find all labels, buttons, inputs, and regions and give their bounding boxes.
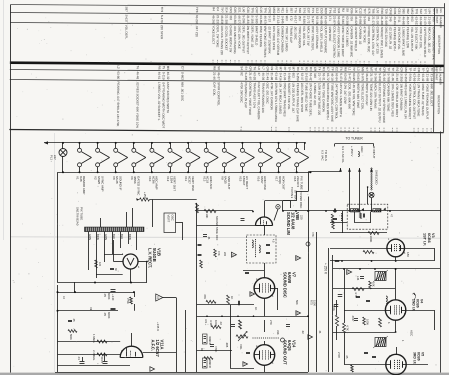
svg-text:63-42: 63-42 — [421, 74, 425, 82]
svg-text:1/2W DISC: 1/2W DISC — [328, 26, 332, 42]
svg-text:= =: = = — [358, 61, 362, 66]
svg-text:= =: = = — [285, 60, 289, 65]
svg-text:= =: = = — [367, 61, 371, 66]
svg-text:M7: M7 — [279, 67, 283, 72]
svg-text:10% YOKE SPKR: 10% YOKE SPKR — [272, 26, 276, 51]
svg-text:S-862: S-862 — [180, 72, 184, 80]
svg-text:63-28: 63-28 — [253, 72, 257, 80]
svg-text:21-48: 21-48 — [395, 73, 399, 81]
svg-text:S21: S21 — [237, 7, 241, 13]
svg-text:S-471: S-471 — [348, 73, 352, 81]
svg-text:4.7K: 4.7K — [346, 325, 350, 331]
svg-text:= =: = = — [233, 60, 237, 65]
svg-text:10% VOL TRANS 220: 10% VOL TRANS 220 — [220, 25, 224, 55]
svg-text:+ 250 V: + 250 V — [350, 146, 354, 156]
svg-text:470K SHIELD 68K BRKT: 470K SHIELD 68K BRKT — [395, 83, 399, 117]
svg-text:OF V8A: OF V8A — [294, 190, 298, 200]
svg-text:IF INPUT: IF INPUT — [372, 146, 376, 159]
svg-text:C85: C85 — [233, 7, 237, 13]
svg-text:YOKE CARBON: YOKE CARBON — [298, 26, 302, 48]
svg-text:= =: = = — [382, 128, 386, 133]
svg-text:DESCRIPTION: DESCRIPTION — [437, 35, 441, 54]
svg-text:120: 120 — [98, 262, 101, 267]
svg-text:VOL DEFL SHIELD: VOL DEFL SHIELD — [319, 26, 323, 53]
svg-text:CHOKE COIL OSC: CHOKE COIL OSC — [367, 27, 371, 54]
svg-text:21-65: 21-65 — [391, 73, 395, 81]
svg-text:TRANS ASSY 10%: TRANS ASSY 10% — [252, 82, 256, 108]
svg-text:M9: M9 — [404, 67, 408, 72]
svg-text:M9: M9 — [166, 66, 170, 71]
svg-text:63-42: 63-42 — [309, 73, 313, 81]
svg-text:= =: = = — [224, 60, 228, 65]
svg-text:= =: = = — [412, 128, 416, 133]
svg-text:PIX TUBE: PIX TUBE — [299, 176, 303, 190]
svg-text:= =: = = — [384, 61, 388, 66]
svg-text:63-48: 63-48 — [274, 73, 278, 81]
svg-text:L2: L2 — [116, 65, 120, 69]
svg-text:6.3 V AC FIL: 6.3 V AC FIL — [341, 146, 345, 163]
svg-text:63-65: 63-65 — [343, 73, 347, 81]
svg-text:= =: = = — [311, 60, 315, 65]
svg-text:S-843: S-843 — [378, 73, 382, 81]
svg-text:MICA .047 1W: MICA .047 1W — [306, 26, 310, 46]
svg-text:TP7: TP7 — [432, 9, 436, 15]
svg-text:7.5K: 7.5K — [126, 298, 130, 304]
svg-text:LIN TRANS MICA TONE: LIN TRANS MICA TONE — [416, 84, 420, 117]
svg-text:LIN 220 OUTPUT .047: LIN 220 OUTPUT .047 — [291, 83, 295, 114]
svg-text:NUMBER: NUMBER — [439, 17, 443, 28]
svg-text:C87: C87 — [307, 8, 311, 14]
svg-text:SND OUT: SND OUT — [227, 176, 231, 190]
svg-text:TP8: TP8 — [195, 7, 199, 13]
svg-text:S10: S10 — [298, 8, 302, 14]
svg-text:= =: = = — [347, 127, 351, 132]
svg-text:S57: S57 — [289, 8, 293, 14]
svg-text:SYNC AMP: SYNC AMP — [100, 176, 104, 192]
svg-text:TP: TP — [374, 67, 378, 71]
svg-text:L44: L44 — [356, 276, 360, 281]
svg-text:10K: 10K — [205, 214, 209, 219]
svg-text:= =: = = — [356, 127, 360, 132]
svg-text:L34: L34 — [285, 8, 289, 13]
svg-text:= =: = = — [215, 60, 219, 65]
svg-text:21-97: 21-97 — [248, 72, 252, 80]
svg-text:.0047: .0047 — [100, 356, 104, 363]
svg-text:= =: = = — [423, 61, 427, 66]
svg-text:1.5MEG .047 CERAM: 1.5MEG .047 CERAM — [276, 26, 280, 56]
svg-text:= =: = = — [280, 60, 284, 65]
svg-text:PEAKING .047 SHIELD LIN 470K: PEAKING .047 SHIELD LIN 470K — [116, 81, 120, 126]
svg-text:R2: R2 — [341, 8, 345, 12]
svg-text:820K: 820K — [107, 293, 111, 300]
svg-text:DEFL 1W YOKE: DEFL 1W YOKE — [216, 25, 220, 47]
svg-text:L1: L1 — [348, 67, 352, 71]
svg-text:VOL DEFL: VOL DEFL — [124, 25, 128, 40]
svg-text:S-156: S-156 — [250, 15, 254, 23]
svg-text:= =: = = — [313, 127, 317, 132]
svg-text:= =: = = — [330, 127, 334, 132]
svg-text:= =: = = — [332, 61, 336, 66]
svg-text:= =: = = — [228, 60, 232, 65]
svg-text:.02 BRKT 1/2W BRK: .02 BRKT 1/2W BRK — [267, 26, 271, 54]
svg-text:CAP ELECT VOL CARBON: CAP ELECT VOL CARBON — [257, 82, 261, 119]
svg-text:V4: V4 — [419, 299, 423, 303]
svg-text:1/2 6CN7: 1/2 6CN7 — [155, 340, 160, 358]
svg-text:21-603: 21-603 — [324, 16, 328, 26]
svg-text:270: 270 — [269, 320, 273, 325]
svg-text:470K: 470K — [214, 346, 218, 352]
svg-text:S-13: S-13 — [268, 15, 272, 22]
svg-text:VOL OSC VOL: VOL OSC VOL — [302, 26, 306, 46]
svg-text:68K .001 ELECT: 68K .001 ELECT — [430, 84, 434, 107]
svg-text:MICA 10% TRANS: MICA 10% TRANS — [373, 83, 377, 108]
svg-text:220 DEFL RES SPKR: 220 DEFL RES SPKR — [300, 83, 304, 113]
svg-text:L8: L8 — [257, 66, 261, 70]
svg-text:S-859: S-859 — [358, 16, 362, 24]
svg-text:TP: TP — [421, 68, 425, 72]
svg-text:REF: REF — [435, 67, 439, 73]
svg-text:472: 472 — [289, 16, 293, 21]
svg-text:TP: TP — [352, 67, 356, 71]
svg-text:CARBON .02 WW MIC: CARBON .02 WW MIC — [349, 26, 353, 58]
svg-text:PEAKING TRANS CAP SHIE: PEAKING TRANS CAP SHIE — [296, 83, 300, 122]
svg-text:R2: R2 — [395, 67, 399, 71]
svg-text:PEAKING WIDTH: PEAKING WIDTH — [393, 27, 397, 51]
svg-text:S63: S63 — [276, 8, 280, 14]
svg-text:R11: R11 — [281, 8, 285, 14]
svg-text:R9: R9 — [212, 66, 216, 70]
svg-text:C15: C15 — [259, 7, 263, 13]
svg-text:VOL: VOL — [239, 344, 243, 350]
svg-text:3.3K: 3.3K — [209, 320, 213, 326]
svg-text:= =: = = — [375, 61, 379, 66]
svg-text:316: 316 — [350, 16, 354, 21]
svg-text:DISC TUBE .02 TRANS: DISC TUBE .02 TRANS — [421, 84, 425, 116]
svg-text:TP: TP — [391, 67, 395, 71]
svg-text:S-119: S-119 — [162, 72, 166, 80]
svg-text:OUTPUT CERAMIC: OUTPUT CERAMIC — [324, 26, 328, 54]
svg-text:S-510: S-510 — [304, 73, 308, 81]
svg-text:.047 PEAKING WIDTH OSC WIDT: .047 PEAKING WIDTH OSC WIDT — [161, 82, 165, 129]
svg-text:TRANS PEAKING 220: TRANS PEAKING 220 — [261, 82, 265, 113]
svg-text:+ 250 V: + 250 V — [324, 263, 328, 275]
svg-text:ASSY CERAMIC: ASSY CERAMIC — [315, 26, 319, 49]
svg-text:1W BRKT CARBON: 1W BRKT CARBON — [399, 83, 403, 110]
svg-text:TP: TP — [387, 67, 391, 71]
svg-text:S75: S75 — [367, 8, 371, 14]
svg-text:ASSY CARBON 1.5ME: ASSY CARBON 1.5ME — [337, 26, 341, 57]
svg-text:S52: S52 — [406, 9, 410, 15]
svg-text:47K: 47K — [311, 232, 315, 237]
svg-text:= =: = = — [302, 60, 306, 65]
svg-text:V8B: V8B — [295, 212, 300, 220]
svg-text:YOKE PEAKING SOCKET: YOKE PEAKING SOCKET — [408, 84, 412, 120]
svg-text:M52: M52 — [410, 9, 414, 15]
svg-text:C7: C7 — [181, 66, 185, 70]
svg-text:TP: TP — [287, 67, 291, 71]
svg-text:= =: = = — [395, 128, 399, 133]
svg-text:+140: +140 — [111, 294, 115, 301]
svg-text:21-974: 21-974 — [332, 16, 336, 26]
svg-text:6CB6: 6CB6 — [416, 352, 420, 361]
svg-text:SPKR CONTROL: SPKR CONTROL — [217, 82, 221, 106]
svg-text:= =: = = — [362, 61, 366, 66]
svg-text:21-476: 21-476 — [423, 17, 427, 27]
svg-text:= =: = = — [287, 127, 291, 132]
svg-text:C9: C9 — [270, 67, 274, 71]
svg-text:R3: R3 — [309, 67, 313, 71]
svg-text:863: 863 — [410, 17, 414, 22]
svg-text:633: 633 — [272, 16, 276, 21]
svg-text:21-46: 21-46 — [212, 72, 216, 80]
svg-text:47K: 47K — [217, 251, 221, 256]
svg-text:40MFD: 40MFD — [208, 336, 212, 345]
svg-text:21-72: 21-72 — [306, 16, 310, 24]
svg-text:WW YOKE 220 TRANS: WW YOKE 220 TRANS — [263, 26, 267, 58]
svg-text:T6: T6 — [339, 67, 343, 71]
svg-text:SOCKET OSC 1.5MEG: SOCKET OSC 1.5MEG — [380, 27, 384, 59]
svg-text:S8: S8 — [217, 66, 221, 70]
svg-text:SOUND LIM: SOUND LIM — [286, 212, 291, 236]
svg-text:TUBE WW DISC ASSY SHIE: TUBE WW DISC ASSY SHIE — [330, 83, 334, 122]
svg-text:SOCKET 470K VOL: SOCKET 470K VOL — [287, 83, 291, 110]
svg-text:R7: R7 — [274, 67, 278, 71]
svg-text:WIDTH 68K TONE: WIDTH 68K TONE — [356, 83, 360, 108]
svg-text:CR8: CR8 — [389, 8, 393, 14]
svg-text:YOKE PEAKING OUTPUT: YOKE PEAKING OUTPUT — [425, 84, 429, 120]
svg-text:21-124: 21-124 — [276, 16, 280, 26]
svg-text:V1B: V1B — [157, 248, 162, 256]
svg-text:265: 265 — [432, 17, 436, 22]
svg-text:50K: 50K — [295, 300, 299, 305]
svg-text:220: 220 — [223, 252, 226, 257]
svg-text:63-84: 63-84 — [335, 73, 339, 81]
svg-text:220: 220 — [300, 215, 304, 220]
svg-text:= =: = = — [323, 60, 327, 65]
svg-text:CR7: CR7 — [255, 7, 259, 13]
svg-text:TP1: TP1 — [311, 8, 315, 14]
svg-text:= =: = = — [289, 60, 293, 65]
svg-text:YOKE 1W 1.5MEG: YOKE 1W 1.5MEG — [285, 26, 289, 52]
svg-text:ELECT OUTPUT .02 OUTPU: ELECT OUTPUT .02 OUTPU — [378, 83, 382, 122]
svg-text:V11A: V11A — [160, 340, 165, 350]
svg-text:.005: .005 — [225, 342, 229, 348]
svg-text:21-193: 21-193 — [376, 16, 380, 26]
svg-text:= =: = = — [401, 61, 405, 66]
svg-text:= =: = = — [239, 126, 243, 131]
svg-text:21-49: 21-49 — [266, 72, 270, 80]
svg-text:TP: TP — [378, 67, 382, 71]
svg-text:= =: = = — [354, 61, 358, 66]
svg-text:OSC: OSC — [171, 215, 175, 221]
svg-text:63-90: 63-90 — [116, 71, 120, 79]
svg-text:= =: = = — [259, 60, 263, 65]
svg-text:.01: .01 — [318, 330, 322, 334]
svg-text:= =: = = — [269, 127, 273, 132]
svg-text:46-61: 46-61 — [157, 72, 161, 80]
svg-text:63-291: 63-291 — [195, 15, 199, 25]
svg-text:TP6: TP6 — [328, 8, 332, 14]
svg-text:S7: S7 — [244, 66, 248, 70]
svg-text:HV RECT: HV RECT — [245, 176, 249, 189]
svg-text:= =: = = — [317, 127, 321, 132]
svg-text:S-380: S-380 — [255, 15, 259, 23]
svg-text:= =: = = — [211, 60, 215, 65]
svg-text:10% .047 1/2W: 10% .047 1/2W — [343, 83, 347, 104]
svg-text:21-889: 21-889 — [380, 16, 384, 26]
svg-text:NO.: NO. — [439, 67, 443, 72]
svg-text:+250: +250 — [143, 192, 147, 199]
svg-text:46-260: 46-260 — [211, 15, 215, 25]
svg-text:S-788: S-788 — [387, 73, 391, 81]
svg-text:= =: = = — [429, 128, 433, 133]
svg-text:S-358: S-358 — [404, 73, 408, 81]
svg-text:348: 348 — [313, 73, 317, 78]
svg-text:TO SND DISC: TO SND DISC — [299, 191, 303, 208]
svg-text:= =: = = — [345, 61, 349, 66]
svg-text:S4: S4 — [240, 66, 244, 70]
svg-text:S-637: S-637 — [124, 14, 128, 22]
svg-text:.02 RES SOCKET 68K YOKE 10%: .02 RES SOCKET 68K YOKE 10% — [135, 82, 139, 129]
svg-text:100K: 100K — [369, 236, 373, 243]
svg-text:21-36: 21-36 — [283, 73, 287, 81]
svg-text:C86: C86 — [350, 8, 354, 14]
svg-text:180: 180 — [406, 252, 410, 257]
svg-text:63-83: 63-83 — [356, 73, 360, 81]
svg-text:= =: = = — [298, 60, 302, 65]
svg-text:= =: = = — [341, 61, 345, 66]
svg-text:63-698: 63-698 — [419, 17, 423, 27]
svg-text:MICA VOL .001 1/2: MICA VOL .001 1/2 — [427, 27, 431, 53]
svg-text:T5: T5 — [162, 66, 166, 70]
svg-text:= =: = = — [377, 127, 381, 132]
svg-text:RES 68K 1.5MEG LIN LIN: RES 68K 1.5MEG LIN LIN — [404, 83, 408, 118]
svg-text:L35: L35 — [354, 8, 358, 13]
svg-text:TP6: TP6 — [263, 7, 267, 13]
svg-text:S-836: S-836 — [302, 16, 306, 24]
svg-text:63-533: 63-533 — [414, 17, 418, 27]
svg-text:DEFL .001 OUTPUT: DEFL .001 OUTPUT — [241, 26, 245, 54]
svg-text:TRANS CAP: TRANS CAP — [289, 26, 293, 43]
svg-text:R9: R9 — [343, 67, 347, 71]
svg-text:= =: = = — [419, 61, 423, 66]
svg-text:21-88: 21-88 — [425, 74, 429, 82]
svg-text:CONTROL 470K .047: CONTROL 470K .047 — [371, 27, 375, 56]
svg-text:S-286: S-286 — [242, 15, 246, 23]
svg-text:S80: S80 — [402, 8, 406, 14]
svg-text:46-689: 46-689 — [402, 16, 406, 26]
svg-text:TUBE SHIELD TONE: TUBE SHIELD TONE — [304, 83, 308, 112]
svg-text:= =: = = — [254, 60, 258, 65]
svg-text:= =: = = — [326, 127, 330, 132]
svg-text:6AW8: 6AW8 — [287, 272, 292, 284]
svg-text:#47: #47 — [53, 155, 57, 160]
svg-text:= =: = = — [421, 128, 425, 133]
svg-text:= =: = = — [339, 127, 343, 132]
svg-text:VERT: VERT — [167, 215, 171, 223]
svg-text:63-180: 63-180 — [315, 16, 319, 26]
svg-text:DEFL YOKE .02: DEFL YOKE .02 — [250, 26, 254, 48]
svg-text:LIN 1W VOL WW YOKE: LIN 1W VOL WW YOKE — [352, 83, 356, 115]
svg-text:.047 220: .047 220 — [195, 25, 199, 37]
svg-text:10% ELECT 68K: 10% ELECT 68K — [414, 27, 418, 50]
svg-text:SOUND DISC: SOUND DISC — [283, 272, 288, 298]
svg-text:.01: .01 — [207, 236, 211, 240]
svg-text:= =: = = — [334, 127, 338, 132]
svg-text:= =: = = — [308, 127, 312, 132]
svg-text:1.5MEG BRKT 1.5ME: 1.5MEG BRKT 1.5ME — [401, 27, 405, 56]
svg-text:CHOKE WIDTH 1W: CHOKE WIDTH 1W — [229, 26, 233, 53]
svg-text:S9: S9 — [345, 8, 349, 12]
svg-text:SOUND TAKE OFF: SOUND TAKE OFF — [215, 216, 219, 241]
svg-text:= =: = = — [373, 127, 377, 132]
svg-text:470K CAP COIL: 470K CAP COIL — [419, 27, 423, 49]
svg-text:1W PEAKING SHIELD: 1W PEAKING SHIELD — [423, 27, 427, 58]
svg-text:= =: = = — [336, 61, 340, 66]
svg-text:TP3: TP3 — [302, 8, 306, 14]
svg-text:5U4GB: 5U4GB — [152, 248, 157, 262]
svg-text:1 MEG: 1 MEG — [92, 334, 96, 343]
svg-text:WIDTH LIN CAP: WIDTH LIN CAP — [365, 83, 369, 105]
svg-text:21-64: 21-64 — [430, 74, 434, 82]
svg-text:= =: = = — [328, 61, 332, 66]
svg-text:220 SPKR: 220 SPKR — [160, 25, 164, 40]
svg-text:161: 161 — [367, 16, 371, 21]
svg-text:100K: 100K — [366, 319, 370, 325]
svg-text:= =: = = — [393, 61, 397, 66]
svg-text:= =: = = — [306, 60, 310, 65]
svg-text:2W WIDTH OUTPUT: 2W WIDTH OUTPUT — [246, 26, 250, 55]
svg-text:.01: .01 — [77, 356, 81, 360]
svg-text:68K .001 OSC: 68K .001 OSC — [180, 82, 184, 102]
svg-text:46-19: 46-19 — [330, 73, 334, 81]
svg-text:COIL .001 68K 68K: COIL .001 68K 68K — [347, 83, 351, 109]
svg-text:TO TUNER: TO TUNER — [346, 137, 364, 141]
svg-text:C50: C50 — [320, 8, 324, 14]
svg-text:46-36: 46-36 — [365, 73, 369, 81]
svg-text:TP5: TP5 — [250, 7, 254, 13]
svg-text:470K .047 CARBON: 470K .047 CARBON — [270, 83, 274, 110]
svg-text:TP8: TP8 — [415, 9, 419, 15]
svg-text:S-259: S-259 — [399, 73, 403, 81]
svg-text:= =: = = — [390, 128, 394, 133]
svg-text:= =: = = — [425, 128, 429, 133]
svg-text:S7: S7 — [365, 67, 369, 71]
svg-text:1.5MEG VOL .02 SOCKET 1.: 1.5MEG VOL .02 SOCKET 1. — [157, 82, 161, 121]
svg-text:CR1: CR1 — [229, 7, 233, 13]
svg-text:S-561: S-561 — [408, 74, 412, 82]
svg-text:DISC 10% YOKE: DISC 10% YOKE — [237, 26, 241, 49]
svg-text:GRN: GRN — [88, 234, 92, 240]
svg-text:T9: T9 — [413, 68, 417, 72]
svg-text:= =: = = — [315, 60, 319, 65]
svg-text:S-11: S-11 — [397, 16, 401, 22]
svg-text:S-471: S-471 — [339, 73, 343, 81]
svg-text:= =: = = — [369, 127, 373, 132]
svg-text:63-51: 63-51 — [417, 74, 421, 82]
svg-text:803: 803 — [291, 73, 295, 78]
svg-text:BRN: BRN — [96, 234, 100, 240]
svg-text:PEAKING LIN CAP: PEAKING LIN CAP — [244, 82, 248, 108]
svg-text:C2: C2 — [335, 67, 339, 71]
svg-text:.02: .02 — [301, 330, 305, 334]
svg-text:CR4: CR4 — [393, 8, 397, 14]
svg-text:63-695: 63-695 — [337, 16, 341, 26]
svg-text:46-37: 46-37 — [217, 72, 221, 80]
svg-text:.05: .05 — [72, 318, 76, 322]
svg-text:YOKE 1.5MEG: YOKE 1.5MEG — [345, 26, 349, 47]
svg-text:S-993: S-993 — [287, 73, 291, 81]
